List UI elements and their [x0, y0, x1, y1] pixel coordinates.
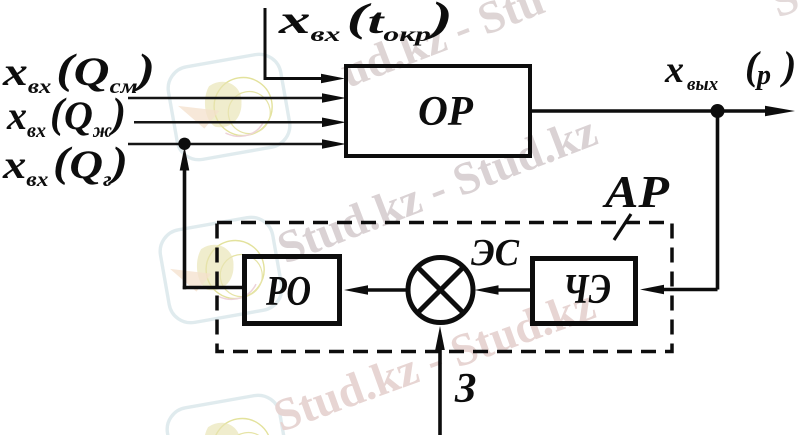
svg-text:): )	[780, 43, 796, 88]
block OP (object of regulation)	[346, 66, 530, 156]
svg-text:З: З	[454, 366, 476, 412]
svg-text:Stu: Stu	[763, 0, 800, 27]
svg-text:вых: вых	[687, 74, 719, 95]
wire feedback up left	[180, 147, 190, 290]
wire PO out left	[183, 286, 244, 290]
wire ChE to ES	[475, 285, 533, 295]
wire output x_vyx	[530, 106, 795, 116]
wire setpoint Z input	[435, 326, 445, 435]
regulator boundary AR (dashed box)	[217, 223, 672, 352]
block ChE (sensing element)	[533, 259, 636, 324]
svg-text:ЭС: ЭС	[471, 232, 520, 274]
svg-text:ОР: ОР	[418, 89, 473, 135]
svg-text:xвх(Qг): xвх(Qг)	[2, 140, 128, 191]
wire ES to PO	[344, 285, 408, 295]
node junction on line 3	[178, 138, 190, 150]
svg-text:x: x	[664, 49, 684, 91]
wire feedback into ChE	[640, 285, 718, 295]
svg-text:ЧЭ: ЧЭ	[563, 267, 611, 313]
wire input t_okr	[264, 8, 346, 83]
wire input Q_g (line 3)	[128, 139, 346, 149]
svg-text:РО: РО	[265, 269, 311, 315]
svg-text:xвх(Qж): xвх(Qж)	[6, 91, 126, 142]
wire input Q_zh (line 2)	[134, 118, 346, 128]
svg-text:Stud.kz - Stud.kz: Stud.kz - Stud.kz	[267, 278, 602, 435]
wire feedback down right	[716, 111, 720, 290]
summing junction ES (comparator circle with cross)	[408, 258, 473, 323]
node output junction	[711, 104, 725, 118]
wire input Q_sm (line 1)	[128, 93, 346, 103]
block PO (regulating organ)	[245, 257, 340, 324]
svg-text:xвх(Qсм): xвх(Qсм)	[2, 47, 155, 98]
AR leader tick	[614, 214, 631, 240]
svg-text:р: р	[755, 60, 771, 91]
svg-text:АР: АР	[602, 166, 670, 217]
